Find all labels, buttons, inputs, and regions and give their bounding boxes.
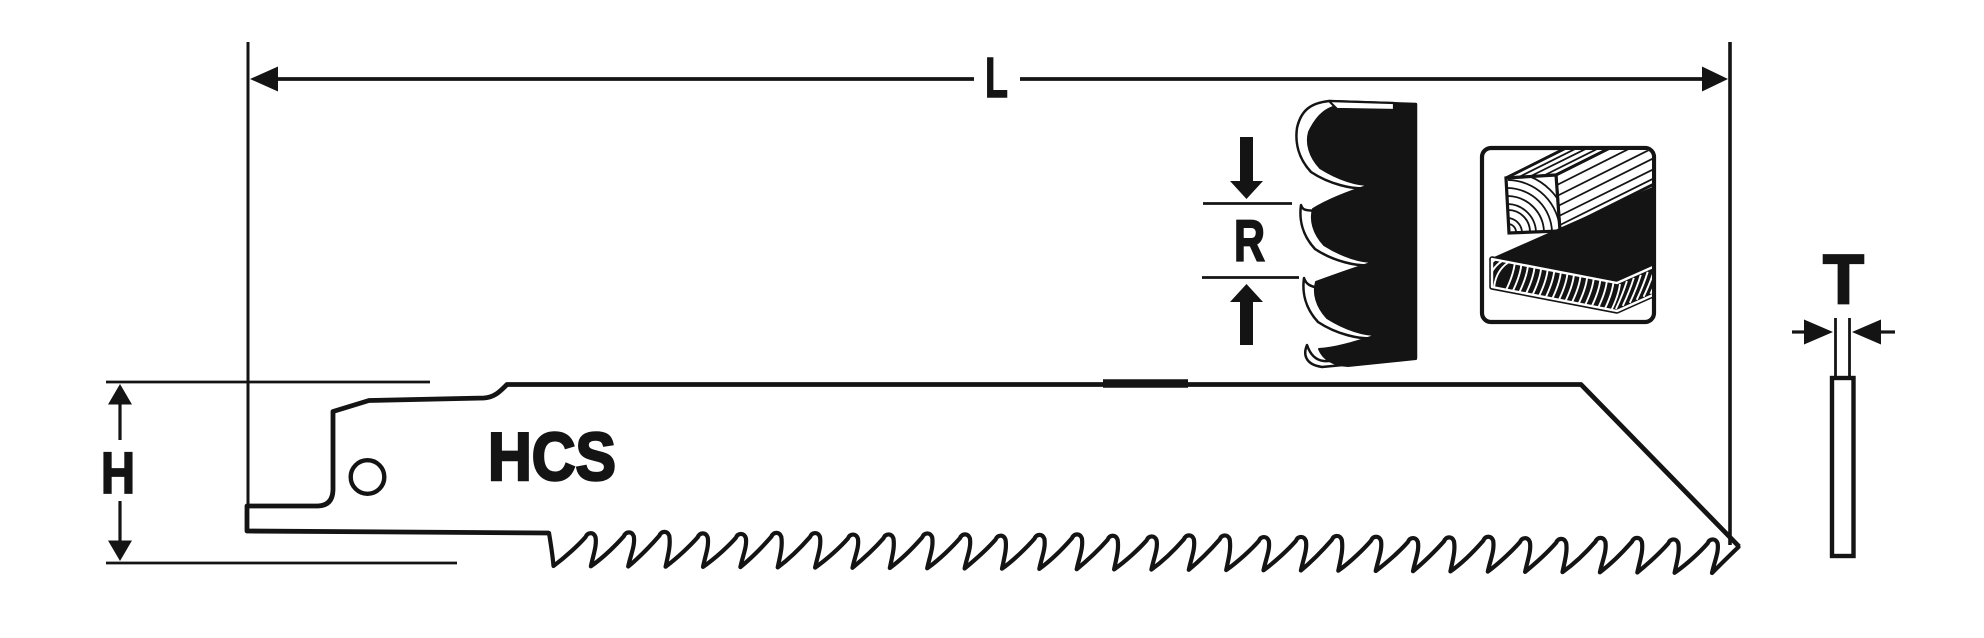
blade body outline [247,385,1739,547]
svg-text:R: R [1234,209,1265,274]
enlarged tooth: side bevel silhouette [1296,101,1416,367]
beam side face [1556,81,1748,231]
enlarged tooth: black face [1308,105,1416,366]
R detail: down arrowhead [1230,181,1263,199]
dimension H: down arrowhead [108,541,132,562]
enlarged tooth: top bevel strip [1329,101,1394,110]
svg-text:HCS: HCS [488,419,616,495]
R detail: lower rule [1202,276,1299,279]
dimension H: lower shaft [118,501,121,543]
blade cross-section [1832,378,1854,556]
dimension L: line right segment [1020,77,1718,81]
blade teeth [549,532,1739,573]
pitch marker segment on top edge [1103,379,1188,388]
beam end-grain rings [1508,172,1568,232]
T dimension: right arrowhead [1852,320,1881,345]
R detail: up arrow shaft [1240,302,1253,345]
dimension L: right extension line [1728,42,1732,545]
dimension H: top extension line [106,381,430,384]
dimension L: right arrowhead [1702,67,1728,92]
svg-text:L: L [985,46,1008,110]
svg-text:H: H [101,441,135,506]
dimension H: bottom extension line [106,562,457,565]
R detail: up arrowhead [1230,284,1263,302]
beam end face [1506,175,1560,233]
T dimension: right tail [1880,330,1895,333]
board top face [1492,167,1700,283]
board band separation line [1492,246,1700,311]
wood application inset frame [1482,148,1654,322]
T dimension: left extension line [1834,318,1837,378]
dimension H: up arrowhead [108,384,132,405]
dimension L: left arrowhead [250,67,278,92]
dimension L: line left segment [262,77,974,81]
dimension L: left extension line [247,42,250,504]
svg-text:T: T [1823,240,1864,318]
board end-grain band [1492,246,1700,311]
beam grain lines [1519,83,1707,177]
T dimension: left tail [1792,330,1806,333]
R detail: down arrow shaft [1240,137,1253,182]
mounting hole [351,460,385,494]
T dimension: left arrowhead [1804,320,1833,345]
beam top face [1506,81,1744,178]
dimension H: upper shaft [118,402,121,440]
T dimension: right extension line [1848,318,1851,378]
R detail: upper rule [1203,202,1292,205]
